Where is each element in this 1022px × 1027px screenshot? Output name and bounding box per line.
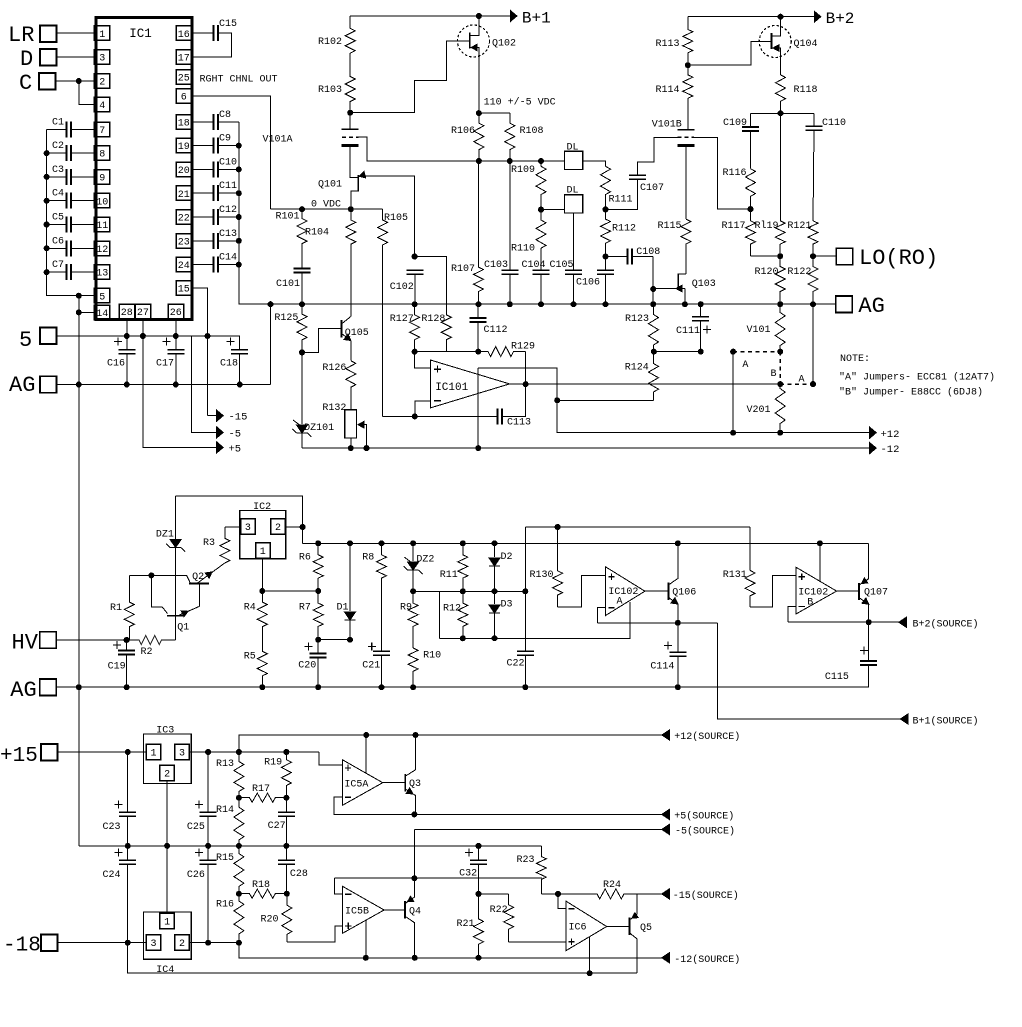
node main row <box>476 301 482 307</box>
svg-text:C25: C25 <box>187 822 205 833</box>
resistor R12 <box>458 591 468 638</box>
svg-text:13: 13 <box>96 269 108 280</box>
wire DZ101 col <box>301 352 303 424</box>
resistor R11 <box>458 543 468 591</box>
svg-text:C15: C15 <box>219 19 237 30</box>
svg-text:C102: C102 <box>390 282 414 293</box>
capacitor C24 <box>119 859 136 861</box>
wire C32-R22 row <box>479 893 509 895</box>
wire R131 jog to + input <box>750 576 796 607</box>
svg-text:+12(SOURCE): +12(SOURCE) <box>674 731 740 743</box>
node pin26 col <box>173 333 179 339</box>
wire R3 to IC2 pin3 <box>225 526 241 528</box>
svg-text:R19: R19 <box>264 758 282 769</box>
tube V101B grid <box>678 136 695 138</box>
wire IC4 pin2 out <box>189 942 239 944</box>
svg-text:R114: R114 <box>656 85 680 96</box>
node C17 AG <box>173 382 179 388</box>
node AG bus <box>76 382 82 388</box>
transistor Q106 <box>667 583 669 600</box>
svg-text:20: 20 <box>178 166 190 177</box>
IC1 pin 1 <box>94 26 110 41</box>
svg-text:Q103: Q103 <box>692 279 716 290</box>
wire bottom row <box>128 943 638 974</box>
node rail2 <box>347 540 353 546</box>
node C103 top <box>507 158 513 164</box>
wire pin14 <box>79 311 95 313</box>
transistor Q103 gate wire <box>653 288 685 290</box>
node D2 bottom <box>492 588 498 594</box>
capacitor C105 <box>565 269 582 271</box>
svg-text:B+2(SOURCE): B+2(SOURCE) <box>913 618 979 630</box>
capacitor C114 <box>669 651 686 653</box>
node R117 top <box>748 206 754 212</box>
svg-text:R104: R104 <box>305 228 329 239</box>
wire IC6 V- stub <box>589 937 591 973</box>
svg-text:3: 3 <box>179 749 185 760</box>
IC2 pin 3 <box>241 519 256 535</box>
wire C18 branch <box>208 336 240 350</box>
IC1 pin 17 <box>176 50 192 65</box>
svg-text:5: 5 <box>99 292 105 303</box>
wire Q106 emitter row <box>598 622 718 624</box>
svg-text:C17: C17 <box>156 359 174 370</box>
wire +12 rail start <box>557 400 870 432</box>
wire Q2 emitter to R3 <box>197 563 225 584</box>
svg-text:C26: C26 <box>187 870 205 881</box>
wire C111 bottom <box>700 321 702 352</box>
wire C20 leads <box>317 640 319 654</box>
wire IC101 V- pin <box>477 368 479 448</box>
svg-text:R1: R1 <box>110 603 122 614</box>
op-amp IC101 <box>430 360 509 408</box>
resistor R123 <box>649 304 659 351</box>
wire R125 to Q105 base <box>302 328 341 352</box>
node R130 top <box>555 524 561 530</box>
transistor Q1 <box>167 615 183 617</box>
IC1 pin 22 <box>176 210 192 225</box>
node AG2 row <box>124 684 130 690</box>
node V201 top <box>777 381 783 387</box>
node IC101 output <box>523 381 529 387</box>
capacitor C16 <box>118 349 135 351</box>
resistor R15 <box>234 846 244 894</box>
svg-text:IC4: IC4 <box>156 965 174 976</box>
node Q3 emitter <box>411 811 417 817</box>
resistor R121 <box>808 221 818 256</box>
svg-text:R122: R122 <box>787 267 811 278</box>
terminal HV <box>40 632 57 649</box>
wire IC2 pin2 out <box>285 526 302 528</box>
wire C102 top to R128 <box>415 257 447 315</box>
svg-text:IC102: IC102 <box>798 588 828 599</box>
svg-text:19: 19 <box>178 142 190 153</box>
svg-text:Q2: Q2 <box>192 572 204 583</box>
node R21 bottom at -12 <box>476 955 482 961</box>
node main row <box>299 301 305 307</box>
arrow B+1(SOURCE) <box>901 714 909 724</box>
tube V101A grid <box>342 136 359 138</box>
wire R109 to DL2 <box>541 209 564 211</box>
diode D2 <box>489 558 500 566</box>
node R119 bottom <box>777 253 783 259</box>
svg-text:C24: C24 <box>103 870 121 881</box>
delay line DL1 <box>564 151 582 169</box>
arrow -15 <box>217 410 224 421</box>
svg-text:R16: R16 <box>216 900 234 911</box>
wire AG row <box>57 384 271 386</box>
transistor Q4 <box>404 901 406 918</box>
capacitor C102 <box>406 269 423 271</box>
terminal LO(RO) <box>836 248 853 265</box>
node IC6 - top <box>555 891 561 897</box>
svg-text:R108: R108 <box>520 126 544 137</box>
svg-text:R121: R121 <box>787 221 811 232</box>
node D3 bottom <box>492 635 498 641</box>
node Q4 collector row <box>411 875 417 881</box>
svg-text:C115: C115 <box>825 672 849 683</box>
node C32 bottom <box>476 891 482 897</box>
svg-text:C13: C13 <box>219 229 237 240</box>
svg-text:C109: C109 <box>723 118 747 129</box>
node main row <box>810 301 816 307</box>
resistor R118 <box>776 75 786 114</box>
svg-text:B+1: B+1 <box>522 10 551 28</box>
wire rail1 to R131 <box>749 527 751 570</box>
svg-text:D3: D3 <box>501 600 513 611</box>
node main row <box>650 301 656 307</box>
svg-text:C32: C32 <box>459 869 477 880</box>
wire right cap bus <box>239 122 271 304</box>
node C9 bus <box>236 143 242 149</box>
resistor R23 <box>536 857 546 894</box>
node Q107 emitter <box>866 619 872 625</box>
node V201 bottom <box>777 430 783 436</box>
node Q106 emitter <box>675 620 681 626</box>
node AG bus at AG2 <box>76 684 82 690</box>
resistor R5 <box>257 651 267 687</box>
svg-text:DZ101: DZ101 <box>304 423 334 434</box>
svg-text:C2: C2 <box>52 141 64 152</box>
node R15 bottom <box>236 891 242 897</box>
wire Q1 emitter to Q2 <box>178 583 199 615</box>
svg-text:10: 10 <box>96 197 108 208</box>
wire rail1 right segment <box>525 526 750 528</box>
node A riser at +12 <box>730 430 736 436</box>
resistor R22 <box>504 894 514 942</box>
node mid rail <box>236 843 242 849</box>
svg-text:2: 2 <box>179 939 185 950</box>
node main row <box>682 301 688 307</box>
svg-text:R11: R11 <box>440 570 458 581</box>
node R124 node <box>554 397 560 403</box>
svg-text:R127: R127 <box>390 314 414 325</box>
wire 0VDC row <box>271 208 383 210</box>
wire IC102B V+ pin <box>819 543 821 581</box>
wire C103 to main row <box>509 274 511 304</box>
node C18 AG <box>237 382 243 388</box>
resistor R128 <box>441 315 451 352</box>
wire Q1 base <box>151 575 167 613</box>
wire V101B grid right to R117 <box>694 137 750 209</box>
svg-text:1: 1 <box>150 749 156 760</box>
svg-text:11: 11 <box>96 221 108 232</box>
svg-text:B: B <box>771 369 777 380</box>
node AG2 row <box>522 684 528 690</box>
arrow +12 <box>870 427 877 438</box>
wire C105 to main row <box>573 274 575 304</box>
svg-text:C101: C101 <box>276 279 300 290</box>
node A2 bottom <box>810 381 816 387</box>
capacitor C101 <box>294 268 311 270</box>
svg-text:R131: R131 <box>723 570 747 581</box>
IC1 pin 20 <box>176 162 192 177</box>
wire HV row <box>56 639 126 641</box>
node mid rail <box>125 843 131 849</box>
node C10 bus <box>236 166 242 172</box>
wire R23 top <box>540 846 542 857</box>
wire D3 col <box>494 591 496 604</box>
svg-text:3: 3 <box>245 523 251 534</box>
node IC3 pin3 out <box>205 749 211 755</box>
wire IC5A V+ stub <box>365 735 367 773</box>
resistor R115 <box>681 219 691 274</box>
svg-text:R123: R123 <box>625 314 649 325</box>
wire D2 col <box>494 543 496 557</box>
wire C23 leads <box>127 752 129 812</box>
node mid rail <box>164 843 170 849</box>
node mid rail <box>283 843 289 849</box>
svg-text:R102: R102 <box>318 37 342 48</box>
node R101 top <box>299 206 305 212</box>
wire -18 row <box>58 942 147 944</box>
svg-text:D1: D1 <box>337 603 349 614</box>
IC1 pin 26 <box>168 304 184 319</box>
tube section V101 <box>775 304 785 351</box>
wire DL row <box>367 160 565 162</box>
svg-text:+12: +12 <box>881 429 900 441</box>
svg-text:1: 1 <box>260 547 266 558</box>
svg-text:R101: R101 <box>276 212 300 223</box>
terminal C <box>39 73 56 90</box>
transistor Q103 <box>677 274 679 288</box>
wire R103 to Q102 gate staircase <box>350 41 470 113</box>
IC1 pin 16 <box>176 26 192 41</box>
wire R1 bottom to HV row <box>127 639 130 641</box>
svg-text:LO(RO): LO(RO) <box>859 246 938 271</box>
capacitor C13 <box>213 233 215 249</box>
svg-text:C103: C103 <box>484 260 508 271</box>
svg-text:R18: R18 <box>252 880 270 891</box>
svg-text:C3: C3 <box>52 165 64 176</box>
resistor R114 <box>683 65 693 130</box>
IC IC2 <box>240 511 286 559</box>
wire C14 leads <box>192 264 214 266</box>
resistor R1 <box>124 575 134 640</box>
wire C27 leads <box>285 798 287 813</box>
node AG2 row <box>259 684 265 690</box>
svg-text:R130: R130 <box>530 570 554 581</box>
svg-text:R103: R103 <box>318 85 342 96</box>
node R17 right <box>283 795 289 801</box>
capacitor C109 <box>742 126 759 128</box>
node C12 bus <box>236 214 242 220</box>
svg-text:R118: R118 <box>794 85 818 96</box>
svg-text:15: 15 <box>178 285 190 296</box>
capacitor C7 <box>66 264 68 280</box>
node C7 bus <box>44 269 50 275</box>
trimmer R132 arrow <box>358 421 364 428</box>
svg-text:C7: C7 <box>52 260 64 271</box>
node C102 top <box>412 254 418 260</box>
wire AG bus vertical lower <box>78 385 80 846</box>
wire C4 leads <box>47 200 67 202</box>
svg-text:R107: R107 <box>451 264 475 275</box>
arrow -5(SOURCE) <box>662 824 670 834</box>
svg-text:R13: R13 <box>216 759 234 770</box>
resistor R3 <box>220 527 230 563</box>
node main row <box>268 301 274 307</box>
node R18 right <box>284 891 290 897</box>
node rail2 <box>410 540 416 546</box>
node Q103 gate col <box>650 286 656 292</box>
arrow -12 <box>870 443 877 454</box>
arrow +12(SOURCE) <box>662 730 670 740</box>
node pin5 bus <box>76 293 82 299</box>
wire left cap bus <box>47 129 95 295</box>
svg-text:IC102: IC102 <box>608 587 638 598</box>
wire C5 leads <box>47 224 67 226</box>
capacitor C18 <box>231 349 248 351</box>
svg-text:A: A <box>617 597 623 608</box>
node C5 bus <box>44 222 50 228</box>
wire C7 leads <box>47 271 67 273</box>
wire V101A cathode to Q101 <box>350 146 358 178</box>
svg-text:R111: R111 <box>609 195 633 206</box>
terminal +15 <box>41 744 58 761</box>
svg-text:C110: C110 <box>822 118 846 129</box>
node C3 bus <box>44 174 50 180</box>
resistor R107 <box>474 161 484 304</box>
capacitor C12 <box>213 209 215 225</box>
capacitor C28 <box>278 859 295 861</box>
svg-text:"B" Jumper- E88CC (6DJ8): "B" Jumper- E88CC (6DJ8) <box>839 387 983 399</box>
resistor R4 <box>257 591 267 651</box>
svg-text:DZ2: DZ2 <box>416 555 434 566</box>
svg-text:R113: R113 <box>656 39 680 50</box>
wire -5 drop to Q4 collector <box>413 829 415 878</box>
svg-text:R23: R23 <box>517 855 535 866</box>
resistor R101 <box>297 209 307 268</box>
wire B+1 source drop <box>718 623 901 719</box>
svg-text:-12: -12 <box>881 444 900 456</box>
wire +12 source riser <box>239 735 662 752</box>
svg-text:C12: C12 <box>219 205 237 216</box>
node rail2 <box>492 540 498 546</box>
transistor Q105 <box>341 320 343 338</box>
svg-text:Q106: Q106 <box>672 588 696 599</box>
node R125 bottom <box>299 349 305 355</box>
terminal LR <box>40 26 57 43</box>
terminal 5 <box>40 328 57 345</box>
capacitor C108 <box>627 249 629 265</box>
svg-text:R14: R14 <box>216 805 234 816</box>
svg-text:C18: C18 <box>220 359 238 370</box>
svg-text:R124: R124 <box>625 363 649 374</box>
capacitor C11 <box>213 185 215 201</box>
resistor R7 <box>313 591 323 640</box>
wire Q103 drain <box>678 273 686 275</box>
svg-text:R115: R115 <box>658 221 682 232</box>
node R7 top <box>315 588 321 594</box>
capacitor C5 <box>66 217 68 233</box>
wire R132 bottom <box>350 438 352 448</box>
svg-text:R24: R24 <box>603 880 621 891</box>
svg-text:9: 9 <box>99 174 105 185</box>
svg-text:Q4: Q4 <box>409 907 421 918</box>
wire D1 bottom <box>349 620 351 640</box>
svg-text:C10: C10 <box>219 157 237 168</box>
terminal AG right <box>836 296 853 313</box>
op-amp IC5A <box>342 760 382 806</box>
svg-text:R112: R112 <box>612 224 636 235</box>
wire Q5 collector <box>629 894 637 920</box>
wire Q4 collector <box>405 878 415 903</box>
node - input <box>412 413 418 419</box>
resistor R20 <box>282 894 292 942</box>
wire C18 to AG <box>239 354 241 385</box>
wire IC101 - input <box>415 401 431 417</box>
arrow -15(SOURCE) <box>662 889 670 899</box>
node R104 top <box>348 206 354 212</box>
svg-text:R8: R8 <box>362 553 374 564</box>
wire D3 row to IC102A <box>440 602 630 638</box>
svg-text:5: 5 <box>19 328 32 353</box>
IC1 pin 23 <box>176 234 192 249</box>
wire IC101 + input <box>415 352 431 368</box>
node Q102 source <box>476 110 482 116</box>
tube V101B cathode <box>677 144 694 147</box>
IC2 pin 1 <box>256 543 270 559</box>
zener DZ2 <box>408 562 419 570</box>
zener DZ1 <box>170 540 181 548</box>
wire C115 bottom to AG2 <box>868 665 870 687</box>
IC1 pin 24 <box>176 257 192 272</box>
wire C11 leads <box>192 192 214 194</box>
node R13 bottom <box>236 795 242 801</box>
wire -12 source drop <box>239 943 662 958</box>
svg-text:27: 27 <box>137 308 149 319</box>
terminal -18 <box>41 935 58 952</box>
transistor Q101 <box>357 175 359 192</box>
svg-text:DL: DL <box>567 143 579 154</box>
node R109 bottom <box>538 207 544 213</box>
wire DZ101 to -12 rail <box>301 433 303 448</box>
wire R113 to Q104 gate staircase <box>688 42 772 66</box>
svg-text:C5: C5 <box>52 213 64 224</box>
wire pin6 to 0VDC row <box>192 96 271 209</box>
svg-text:6: 6 <box>181 92 187 103</box>
svg-text:R128: R128 <box>421 314 445 325</box>
wire +15 row <box>58 751 147 753</box>
wire Q4 emitter <box>405 916 415 958</box>
wire 110VDC row <box>479 112 510 114</box>
wire C110 to R121 <box>813 130 814 221</box>
svg-text:-12(SOURCE): -12(SOURCE) <box>674 954 740 966</box>
svg-text:V101A: V101A <box>263 135 293 146</box>
svg-text:-5(SOURCE): -5(SOURCE) <box>675 826 735 838</box>
wire C107 to R111 row <box>606 179 638 209</box>
